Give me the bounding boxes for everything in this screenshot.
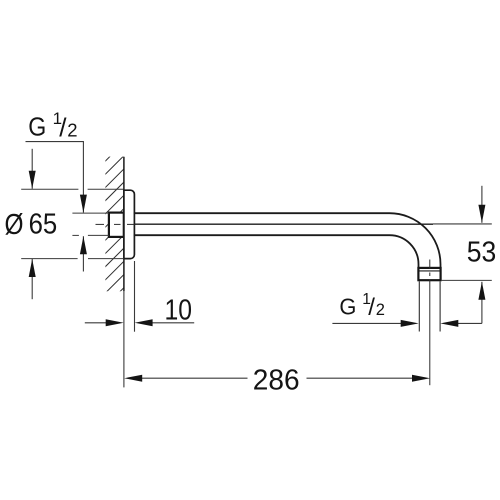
extension line tube top at wall bbox=[72, 212, 108, 214]
dim 53 bottom extension line bbox=[441, 279, 492, 281]
svg-text:G: G bbox=[339, 293, 356, 319]
vertical centerline of outlet bbox=[429, 260, 431, 386]
G 1/2 top up arrow bbox=[82, 236, 84, 271]
svg-text:2: 2 bbox=[67, 120, 77, 141]
dim 10 left line and right-pointing arrow bbox=[85, 322, 107, 324]
dim 286 left segment with left-pointing arrow bbox=[141, 377, 248, 379]
extension line flange bottom bbox=[21, 258, 77, 260]
extension line tube bottom at wall bbox=[72, 234, 79, 236]
arm tube middle line bbox=[134, 223, 433, 225]
lower tube right side bbox=[439, 281, 441, 331]
svg-text:286: 286 bbox=[253, 365, 300, 397]
flange edge extension line bbox=[134, 261, 136, 332]
wall face line bbox=[123, 157, 125, 291]
svg-text:Ø: Ø bbox=[5, 209, 24, 241]
svg-text:G: G bbox=[28, 113, 46, 141]
G 1/2 bottom right line with left-pointing arrow bbox=[457, 322, 482, 324]
horizontal centerline at wall bbox=[96, 223, 135, 225]
svg-text:53: 53 bbox=[467, 236, 497, 268]
threaded inlet in wall bbox=[109, 213, 124, 237]
arm tube top edge and outer bend bbox=[134, 213, 441, 268]
dim 286 right segment with right-pointing arrow bbox=[307, 377, 414, 379]
dim 53 top extension line bbox=[433, 223, 492, 225]
svg-text:65: 65 bbox=[29, 209, 58, 241]
wall face extension line (to 286 dim) bbox=[123, 291, 125, 387]
dia65 up arrow bbox=[31, 259, 33, 299]
dim 53 lower line with up arrow bbox=[481, 282, 483, 324]
lower thread band bbox=[418, 268, 440, 280]
arm tube bottom edge and inner bend bbox=[134, 235, 419, 268]
escutcheon flange bbox=[124, 190, 134, 258]
svg-text:2: 2 bbox=[376, 301, 385, 319]
dia65 down arrow bbox=[31, 149, 33, 189]
G 1/2 top vertical leader with down arrow bbox=[82, 142, 84, 213]
dim 53 upper line with down arrow bbox=[481, 186, 483, 223]
extension line flange top bbox=[21, 188, 78, 190]
dim 10 right line and left-pointing arrow bbox=[152, 322, 194, 324]
wall hatching bbox=[103, 140, 127, 309]
svg-text:/: / bbox=[59, 113, 67, 143]
G 1/2 bottom leader line with right-pointing arrow bbox=[332, 322, 402, 324]
G 1/2 top leader underline bbox=[26, 141, 84, 143]
svg-text:10: 10 bbox=[165, 294, 193, 326]
svg-text:/: / bbox=[368, 294, 375, 321]
lower thread band inner line bbox=[420, 270, 440, 272]
lower tube left side bbox=[418, 281, 420, 331]
